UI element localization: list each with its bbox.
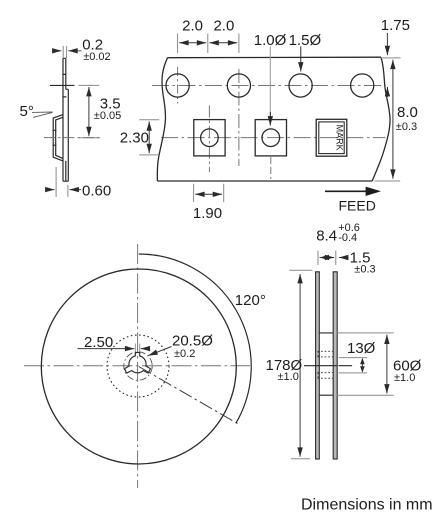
svg-text:20.5Ø: 20.5Ø bbox=[172, 332, 213, 349]
svg-text:1.90: 1.90 bbox=[193, 205, 222, 222]
svg-text:±0.02: ±0.02 bbox=[83, 51, 110, 63]
svg-text:8.4: 8.4 bbox=[316, 228, 337, 245]
svg-text:1.0Ø: 1.0Ø bbox=[254, 32, 287, 49]
svg-text:8.0: 8.0 bbox=[397, 104, 418, 121]
svg-text:5°: 5° bbox=[20, 103, 34, 120]
svg-text:±0.3: ±0.3 bbox=[396, 121, 417, 133]
svg-text:±1.0: ±1.0 bbox=[394, 372, 415, 384]
svg-text:MARK: MARK bbox=[335, 125, 345, 151]
svg-text:±0.05: ±0.05 bbox=[94, 110, 121, 122]
svg-text:120°: 120° bbox=[235, 292, 266, 309]
svg-text:±0.2: ±0.2 bbox=[174, 348, 195, 360]
svg-text:-0.4: -0.4 bbox=[338, 232, 357, 244]
svg-text:2.0: 2.0 bbox=[213, 17, 234, 34]
svg-text:±1.0: ±1.0 bbox=[278, 371, 299, 383]
svg-text:Dimensions in mm: Dimensions in mm bbox=[301, 497, 433, 514]
svg-text:1.5Ø: 1.5Ø bbox=[289, 32, 322, 49]
svg-text:1.75: 1.75 bbox=[381, 17, 410, 34]
svg-text:13Ø: 13Ø bbox=[347, 340, 376, 357]
svg-text:2.0: 2.0 bbox=[182, 17, 203, 34]
svg-text:2.30: 2.30 bbox=[120, 129, 149, 146]
svg-text:±0.3: ±0.3 bbox=[354, 263, 375, 275]
svg-text:FEED: FEED bbox=[339, 198, 376, 214]
svg-text:0.60: 0.60 bbox=[82, 182, 111, 199]
svg-text:2.50: 2.50 bbox=[84, 334, 113, 351]
